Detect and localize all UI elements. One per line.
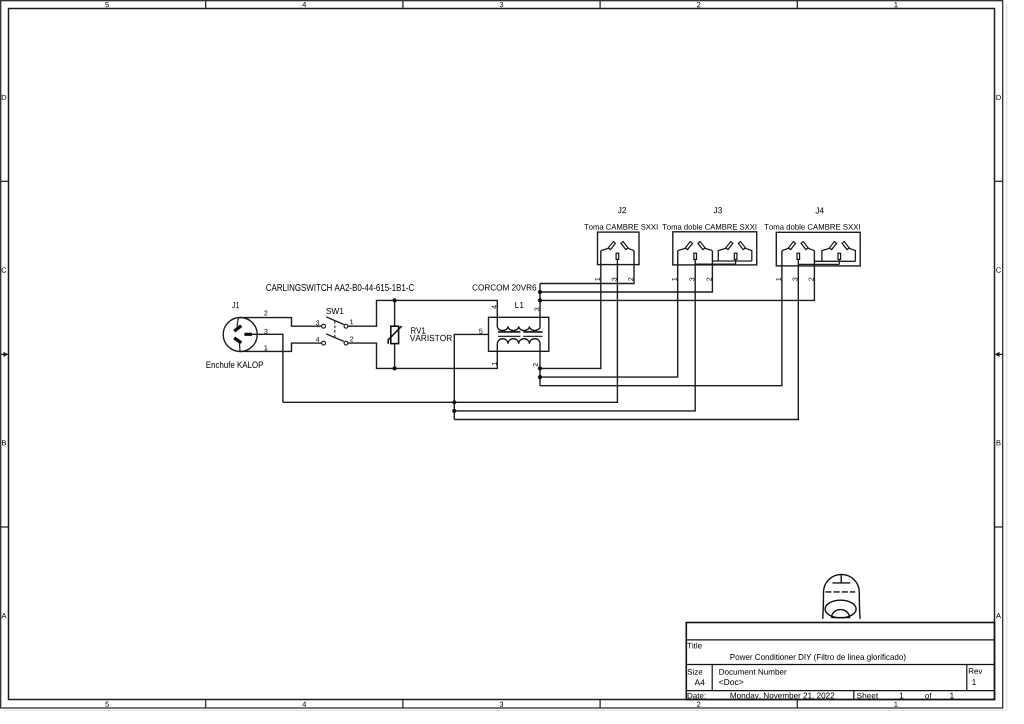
J2 value label	[584, 224, 657, 230]
SW1 pin 4 number	[316, 337, 320, 342]
title block label Rev	[969, 668, 983, 674]
varistor RV1 body	[391, 326, 399, 343]
L1 pin 3 riser	[539, 284, 541, 327]
J3 value label	[662, 224, 756, 230]
L1 pin 2 dropper	[539, 344, 541, 386]
junction L1 pin2 rail 1	[538, 366, 542, 370]
J1 bottom radial line	[238, 343, 241, 352]
J4 reference label	[815, 208, 823, 214]
J2 left wing	[601, 248, 609, 250]
J4 pin 3 number	[793, 278, 798, 281]
J3 socket A ground slot	[694, 253, 697, 259]
J4 pin 1 number	[776, 278, 781, 281]
SW1 lever pole A	[326, 317, 344, 325]
L1 core line upper	[498, 331, 543, 333]
title block label Sheet	[857, 693, 878, 699]
J4 socket B right slot	[842, 242, 849, 250]
L1 bottom winding	[497, 339, 540, 344]
J4 socket B ground drop	[838, 259, 840, 264]
J3 socket B ground slot	[734, 253, 737, 259]
J3 link line hot	[712, 260, 751, 262]
J3 socket B right slot	[738, 242, 745, 250]
switch SW1 contacts	[322, 324, 348, 345]
earth bus to J4 pin 3	[454, 260, 798, 420]
earth bus to J3 pin 3	[454, 260, 695, 411]
J2 pin 1 number	[595, 278, 600, 281]
wire SW1 pin 2 to L1 pin 1	[348, 343, 497, 368]
L1 pin 5 earth lead	[454, 334, 488, 419]
J4 socket A ground slot	[797, 253, 800, 259]
J4 socket B left slot	[829, 242, 836, 250]
SW1 reference label	[326, 308, 343, 314]
junction RV1 bottom	[393, 366, 397, 370]
J4 socket B ground slot	[838, 253, 841, 259]
title block label Title	[687, 643, 702, 649]
rail L1 pin 3 to J2 pin 2	[540, 251, 634, 284]
L1 top winding	[497, 326, 540, 330]
J4 socket A right slot	[801, 242, 808, 250]
earth bus to J2 pin 3	[283, 260, 618, 403]
J4 socket B left wing	[822, 248, 830, 261]
title block rev 1	[972, 679, 976, 685]
L1 reference label	[515, 302, 523, 308]
title block label Date	[688, 693, 706, 699]
SW1 pin 2 number	[350, 337, 353, 342]
title block size A4	[695, 679, 705, 685]
J3 socket B left slot	[726, 242, 733, 250]
SW1 gang dashed link	[334, 321, 336, 339]
L1 value label	[473, 284, 537, 290]
L1 core line lower	[498, 335, 543, 337]
J4 socket A left wing	[782, 248, 789, 250]
J1 pin 2 number	[264, 311, 267, 316]
J3 link line earth	[695, 263, 735, 265]
junction L1 pin3 rail 2	[538, 290, 542, 294]
title block label Size	[688, 669, 703, 675]
title block label of	[925, 693, 931, 699]
J3 pin 3 number	[689, 278, 694, 281]
J1 reference label	[232, 302, 239, 308]
title block document title	[730, 654, 905, 662]
connector J1 plug body	[223, 318, 257, 352]
junction earth bus 2	[452, 409, 456, 413]
J4 socket A right wing	[808, 248, 815, 250]
J3 socket B left wing	[718, 248, 726, 261]
L1 pin 5 number	[479, 329, 482, 334]
J1 pin 3 number	[264, 329, 267, 334]
J4 socket A left slot	[788, 242, 795, 250]
J2 pin 2 number	[628, 278, 633, 281]
J2 pin 3 number	[612, 278, 617, 281]
J3 pin 1 number	[672, 278, 677, 281]
L1 pin 4 number	[492, 305, 497, 309]
J3 reference label	[714, 207, 722, 213]
title block sheet count	[950, 693, 954, 699]
J4 link line earth	[798, 263, 839, 265]
J1 pin 1 number	[264, 345, 267, 350]
outlet J3 body	[673, 232, 757, 265]
vacuum tube logo	[823, 574, 860, 618]
J2 socket right slot	[621, 242, 628, 250]
title block date value	[731, 692, 835, 700]
J2 socket left slot	[608, 242, 615, 250]
rail L1 pin 2 to J3 pin 1	[540, 251, 678, 378]
SW1 pin 1 number	[350, 319, 353, 324]
J4 link line hot	[814, 260, 855, 262]
J1 value label	[206, 361, 263, 368]
J4 pin 2 number	[809, 278, 814, 281]
rail L1 pin 3 to J3 pin 2	[540, 251, 712, 292]
J2 right wing	[628, 248, 634, 250]
junction L1 pin2 rail 2	[538, 375, 542, 379]
rail L1 pin 2 to J2 pin 1	[540, 251, 601, 369]
J2 socket ground slot	[616, 253, 619, 259]
L1 pin 3 number	[534, 308, 539, 311]
J3 pin 2 number	[707, 278, 712, 281]
J3 socket B right wing	[745, 248, 752, 261]
varistor RV1 top lead	[394, 300, 396, 326]
L1 pin 1 number	[492, 362, 497, 365]
rail L1 pin 3 to J4 pin 2	[540, 251, 814, 301]
junction RV1 top	[393, 298, 397, 302]
outlet J4 body	[776, 232, 860, 266]
J3 socket A right slot	[698, 242, 705, 250]
SW1 value label	[266, 284, 414, 291]
J1 bottom prong	[234, 338, 241, 343]
J1 middle prong	[244, 333, 252, 336]
junction earth bus 1	[452, 400, 456, 404]
J2 reference label	[618, 207, 626, 213]
RV1 value label	[410, 335, 452, 341]
title block	[686, 623, 994, 700]
SW1 pin 3 number	[316, 320, 319, 325]
rail L1 pin 2 to J4 pin 1	[540, 251, 782, 386]
RV1 diagonal strike	[388, 326, 402, 344]
title block doc number	[719, 679, 743, 685]
wire J1 pin 1 to SW1 pin 4	[240, 343, 322, 351]
title block label Document Number	[719, 669, 786, 675]
L1 pin 2 number	[533, 363, 538, 366]
wire J1 pin 2 to SW1 pin 3	[240, 318, 322, 327]
RV1 reference label	[411, 327, 425, 333]
J4 socket B right wing	[849, 248, 856, 261]
J3 socket A left wing	[678, 248, 686, 250]
J1 top prong	[234, 326, 241, 332]
filter choke L1 body	[489, 317, 549, 351]
J3 socket A right wing	[705, 248, 713, 250]
J1 top radial line	[237, 318, 239, 327]
wire SW1 pin 1 to L1 pin 4	[348, 300, 497, 326]
outlet J2 body	[598, 232, 640, 265]
wire J1 pin 3 earth drop	[252, 334, 283, 402]
junction L1 pin3 rail 3	[538, 298, 542, 302]
J3 socket B ground drop	[735, 259, 737, 264]
J4 value label	[764, 224, 860, 230]
varistor RV1 bottom lead	[394, 344, 396, 369]
title block sheet number	[900, 693, 904, 699]
SW1 lever pole B	[326, 334, 344, 342]
J3 socket A left slot	[685, 242, 692, 250]
